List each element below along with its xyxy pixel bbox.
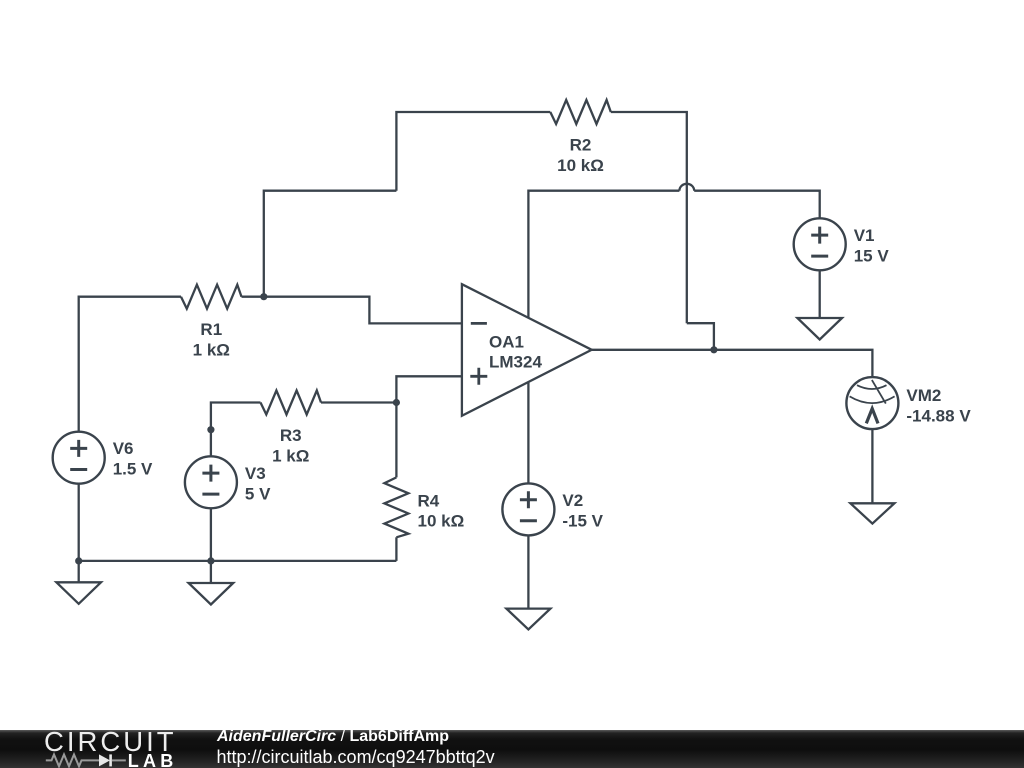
wire V6 bottom <box>78 484 80 583</box>
logo wire end <box>112 759 126 761</box>
source V2 minus <box>520 519 537 522</box>
source V3 plus <box>202 465 219 482</box>
wire V6 to R1 <box>79 297 181 432</box>
node junction R3/R4/plus <box>393 399 400 406</box>
node junction R1/feedback <box>260 293 267 300</box>
svg-text:1 kΩ: 1 kΩ <box>193 341 230 360</box>
wire V2 to ground <box>527 535 529 608</box>
svg-text:R1: R1 <box>200 320 222 339</box>
wire VM2 to ground <box>871 429 873 503</box>
ground below V6 <box>56 582 101 604</box>
resistor R4 <box>384 477 408 537</box>
svg-text:1.5 V: 1.5 V <box>113 460 153 479</box>
wire R4 bottom <box>395 537 397 561</box>
svg-text:R4: R4 <box>418 491 440 510</box>
svg-text:V1: V1 <box>854 226 875 245</box>
wire V1 to ground <box>819 270 821 318</box>
svg-text:5 V: 5 V <box>245 484 271 503</box>
voltmeter VM2 face arc upper <box>857 385 887 389</box>
resistor R3 <box>261 391 322 415</box>
CircuitLab logo <box>0 730 210 768</box>
source V1 plus <box>811 227 828 244</box>
source V3 circle <box>185 456 237 508</box>
svg-text:15 V: 15 V <box>854 246 890 265</box>
resistor R1 <box>181 285 242 309</box>
svg-text:VM2: VM2 <box>906 386 941 405</box>
svg-text:-15 V: -15 V <box>562 511 603 530</box>
wire op-amp V+ pin up <box>528 191 679 319</box>
svg-text:V6: V6 <box>113 439 134 458</box>
voltmeter VM2 needle <box>872 380 886 404</box>
footer url text <box>217 747 495 767</box>
wire feedback left vertical <box>264 191 397 297</box>
svg-text:OA1: OA1 <box>489 333 524 352</box>
op-amp minus marker <box>471 322 487 325</box>
ground below VM2 <box>850 503 894 523</box>
wire hop to V1 <box>694 191 820 219</box>
op-amp plus marker <box>470 368 487 385</box>
source V3 minus <box>202 493 219 496</box>
footer title text <box>217 727 449 747</box>
node junction above V3 <box>207 426 214 433</box>
ground below V2 <box>506 609 550 630</box>
wire R3 left to V3 <box>211 403 261 457</box>
node junction output/feedback <box>710 346 717 353</box>
svg-text:LAB: LAB <box>128 751 178 768</box>
svg-text:R2: R2 <box>570 136 592 155</box>
source V6 circle <box>53 432 105 484</box>
source V2 circle <box>502 483 554 535</box>
wire hop over feedback <box>679 184 694 191</box>
svg-text:V2: V2 <box>562 491 583 510</box>
svg-text:LM324: LM324 <box>489 353 542 372</box>
source V1 circle <box>794 218 846 270</box>
svg-text:10 kΩ: 10 kΩ <box>557 156 604 175</box>
resistor R2 <box>550 100 611 124</box>
logo diode <box>99 754 110 766</box>
voltmeter VM2 circle <box>846 377 898 429</box>
footer bar <box>0 730 1024 768</box>
logo diode cathode <box>109 754 112 766</box>
svg-text:1 kΩ: 1 kΩ <box>272 446 309 465</box>
wire feedback jog to output <box>687 323 714 350</box>
wire op-amp output <box>592 350 873 377</box>
svg-text:10 kΩ: 10 kΩ <box>418 512 465 531</box>
wire V3 bottom <box>210 508 212 583</box>
node junction rail/V3 <box>207 557 214 564</box>
wire top feedback horizontal <box>396 112 550 191</box>
source V6 minus <box>70 468 87 471</box>
voltmeter VM2 lambda <box>866 409 878 424</box>
node junction rail/V6 <box>75 557 82 564</box>
ground below V1 <box>797 318 842 340</box>
wire bottom rail <box>79 560 397 562</box>
wire op-amp V- pin <box>527 382 529 484</box>
wire R2 right to corner <box>611 112 687 323</box>
wire R3 right junction up is part of plus input; wire R4 top <box>321 403 396 478</box>
source V6 plus <box>70 440 87 457</box>
svg-text:R3: R3 <box>280 426 302 445</box>
wire R1 to op-amp minus input <box>242 297 462 324</box>
svg-text:V3: V3 <box>245 464 266 483</box>
source V1 minus <box>811 255 828 258</box>
source V2 plus <box>520 491 537 508</box>
voltmeter VM2 face arc lower <box>850 396 895 403</box>
op-amp U1 triangle <box>462 284 592 416</box>
svg-text:-14.88 V: -14.88 V <box>906 407 971 426</box>
ground below V3 <box>189 583 234 605</box>
wire plus input <box>396 376 462 402</box>
logo resistor wire <box>46 755 99 767</box>
